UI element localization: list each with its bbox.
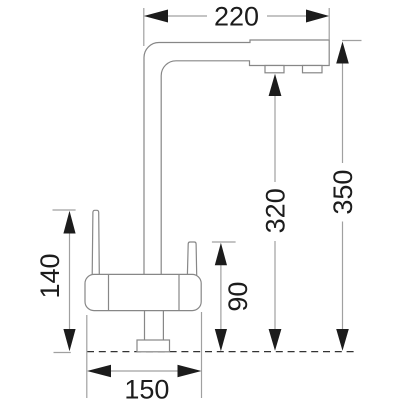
faucet body xyxy=(85,274,201,310)
body internal line right xyxy=(178,275,180,311)
dimension 350 line xyxy=(342,64,344,330)
dimension 320 text xyxy=(260,188,290,233)
dimension 90 arrow bottom xyxy=(215,329,227,351)
dimension 140 arrow bottom xyxy=(63,329,75,351)
svg-text:320: 320 xyxy=(260,188,290,233)
svg-text:140: 140 xyxy=(35,253,65,298)
dimension 150 arrow right xyxy=(178,365,202,378)
dimension 220 line xyxy=(168,15,306,17)
dimension 150 line xyxy=(111,370,178,372)
dimension 320 line xyxy=(274,96,276,329)
faucet spout and riser pipe outline xyxy=(144,40,329,275)
mounting base nut xyxy=(137,340,170,352)
left lever handle xyxy=(92,210,99,275)
dimension 350 arrow top xyxy=(336,42,349,64)
dimension 140 extension line top xyxy=(53,209,76,211)
dimension 320 arrow top xyxy=(269,74,282,96)
dimension 150 extension line right xyxy=(201,312,203,398)
dimension 220 arrow left xyxy=(144,10,168,23)
dimension 150 arrow left xyxy=(87,365,111,378)
dimension 90 arrow top xyxy=(215,243,227,265)
right lever handle xyxy=(187,242,196,275)
dimension 350 arrow bottom xyxy=(336,329,349,351)
dimension 90 line xyxy=(220,265,222,329)
dimension 90 text xyxy=(223,282,253,312)
svg-text:150: 150 xyxy=(124,374,169,400)
svg-text:90: 90 xyxy=(223,282,253,312)
dimension 320 arrow bottom xyxy=(269,329,282,351)
body internal line left xyxy=(108,275,110,311)
dimension 140 text xyxy=(35,253,65,298)
dimension 140 extension line bottom xyxy=(54,352,71,354)
dimension 350 extension line top xyxy=(342,40,362,42)
svg-text:220: 220 xyxy=(214,1,259,31)
dimension 90 extension line top xyxy=(212,241,236,243)
mounting shank xyxy=(145,311,164,340)
aerator nozzle right xyxy=(303,66,323,73)
dimension 350 text xyxy=(328,170,358,215)
countertop dashed reference line xyxy=(87,351,355,353)
svg-text:350: 350 xyxy=(328,170,358,215)
dimension 220 extension line right xyxy=(328,8,330,40)
dimension 150 extension line left xyxy=(86,315,88,398)
dimension 140 arrow top xyxy=(63,211,75,234)
dimension 140 line xyxy=(69,234,71,330)
dimension 220 arrow right xyxy=(306,10,329,23)
dimension 220 extension line left xyxy=(143,8,145,46)
aerator nozzle left xyxy=(265,66,284,73)
